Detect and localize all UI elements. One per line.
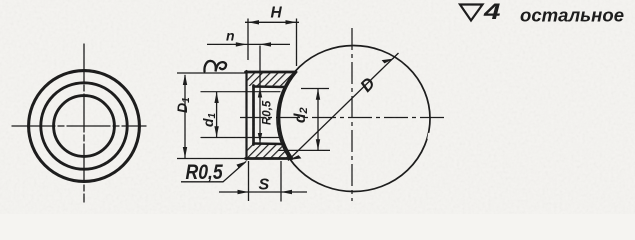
scan fade gaps on ball lower-right arc — [385, 133, 430, 189]
thread line top — [201, 91, 280, 93]
hatching top band — [248, 73, 296, 86]
d2 bottom arrow — [316, 139, 320, 150]
d1 top arrow — [214, 92, 218, 103]
inner circle (hole) — [54, 96, 115, 157]
S dim line — [219, 191, 307, 193]
D1 bottom extension — [177, 158, 246, 160]
d2 bottom extension — [278, 149, 330, 151]
d2 top extension — [301, 88, 329, 90]
inner dim top arrow — [258, 88, 262, 98]
H extension left — [247, 19, 249, 61]
hole top edge — [254, 85, 287, 88]
thread line bottom — [201, 137, 280, 139]
horizontal centerline — [240, 117, 448, 119]
middle circle (hub D1) — [41, 83, 127, 169]
S extension right — [280, 161, 282, 202]
d2 top arrow — [316, 89, 320, 100]
D1 dim line — [184, 75, 186, 159]
ball circle D — [277, 46, 430, 192]
H dimension line — [245, 21, 299, 23]
D1 top extension — [177, 72, 247, 74]
hub face line — [245, 71, 247, 160]
d1 dim line — [216, 92, 218, 138]
R0.5 leader arrow — [236, 160, 247, 168]
S right arrow (outside) — [281, 190, 292, 194]
outer circle (ball silhouette) — [29, 71, 140, 182]
horizontal centerline — [12, 125, 146, 127]
S left arrow (outside) — [238, 190, 249, 194]
S extension left — [248, 161, 250, 201]
inner dim bottom arrow — [258, 133, 262, 143]
hatching bottom band — [248, 145, 291, 158]
R0.5 leader — [181, 162, 246, 182]
ball left arc (part outline, heavier) — [279, 72, 296, 159]
hub bottom edge — [246, 157, 293, 160]
squiggle 2 above extension — [204, 61, 226, 72]
hub top edge — [246, 71, 297, 74]
D diagonal dimension line — [288, 53, 399, 161]
D diagonal upper arrow — [382, 58, 395, 64]
hole bottom edge — [254, 142, 284, 145]
H right arrow — [286, 20, 297, 24]
n left arrow (outside) — [236, 42, 247, 46]
hole left wall — [252, 86, 255, 145]
surface mark triangle — [460, 5, 483, 21]
inner hole dim line — [259, 88, 261, 144]
D1 bottom arrow — [183, 147, 187, 158]
n extension (shared with inner dim) — [259, 46, 261, 87]
vertical centerline — [351, 28, 353, 201]
H extension right — [296, 19, 298, 67]
n right arrow (outside) — [260, 42, 271, 46]
n dimension line — [207, 43, 290, 45]
D diagonal lower arrow — [289, 155, 302, 161]
d2 dim line — [317, 89, 319, 151]
d1 bottom arrow — [214, 126, 218, 137]
D1 top arrow — [183, 74, 187, 85]
vertical centerline — [83, 44, 85, 202]
H left arrow — [248, 20, 259, 24]
